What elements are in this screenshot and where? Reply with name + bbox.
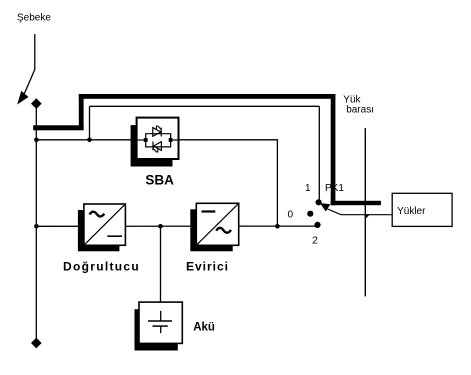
rectifier diagonal xyxy=(85,205,125,245)
switch wiper diagonal to load line xyxy=(327,209,342,215)
wire: main horizontal rail (rectifier-inverter-switch) xyxy=(36,225,317,227)
battery cell: top lead xyxy=(160,311,162,321)
wire: battery lead down xyxy=(160,226,162,302)
junction dot battery tap xyxy=(158,224,163,229)
SBA inner: loop rectangle rails xyxy=(146,134,171,147)
node: mains connection diamond (top) xyxy=(31,98,42,109)
block SBA: shadow xyxy=(131,125,173,166)
svg-text:Yükler: Yükler xyxy=(397,206,426,217)
wire: bypass top horizontal to switch xyxy=(90,105,320,107)
node: bottom connection diamond xyxy=(31,338,42,349)
svg-text:0: 0 xyxy=(288,210,294,221)
SBA inner: top thyristor (points right) xyxy=(153,128,161,137)
block Evirici (inverter): shadow xyxy=(190,209,232,251)
svg-text:Evirici: Evirici xyxy=(186,260,229,274)
junction tick on load bus xyxy=(365,214,370,219)
svg-text:SBA: SBA xyxy=(145,173,174,188)
wire: bypass riser xyxy=(89,106,91,140)
block Yükler: box xyxy=(392,193,452,226)
block Akü: box xyxy=(139,302,182,343)
SBA inner: right lead and dot xyxy=(171,139,178,141)
wire: SBA output to inverter rail xyxy=(179,140,278,227)
contact dot 1 xyxy=(316,199,322,205)
wire: load line to Yükler box xyxy=(341,214,392,216)
svg-text:PK1: PK1 xyxy=(325,183,344,194)
thick power path: left riser xyxy=(79,94,84,129)
block Evirici: box xyxy=(196,203,238,245)
switch blade (mains disconnect, open) xyxy=(24,70,35,96)
junction dot SBA output on rail xyxy=(275,224,280,229)
battery cell: short plate xyxy=(153,325,168,327)
thick power path: bar to loads xyxy=(331,201,381,205)
wire: SBA input line from mains junction xyxy=(36,139,137,141)
thick power path: top horizontal run xyxy=(79,94,336,99)
svg-text:barası: barası xyxy=(346,105,374,116)
thick power path: right drop xyxy=(331,94,336,205)
SBA inner: bottom thyristor (points left) xyxy=(153,142,161,151)
battery cell: bottom lead xyxy=(160,326,162,333)
block Akü (battery): shadow xyxy=(135,309,178,350)
battery cell: long plate xyxy=(148,320,172,322)
contact dot 0 xyxy=(307,211,313,217)
junction dot at bypass riser xyxy=(87,138,92,143)
block SBA: box xyxy=(137,118,179,159)
block Doğrultucu: box xyxy=(84,204,126,245)
rectifier AC tilde xyxy=(90,212,105,217)
thick power path: lower-left bar from mains xyxy=(33,125,83,130)
svg-text:2: 2 xyxy=(312,235,318,247)
junction dot mains-rectifier xyxy=(34,224,39,229)
svg-text:Şebeke: Şebeke xyxy=(17,13,51,24)
svg-text:Doğrultucu: Doğrultucu xyxy=(63,260,140,274)
inverter AC tilde xyxy=(216,228,231,233)
wire: Yük barası vertical bus xyxy=(364,128,366,296)
contact dot 2 xyxy=(314,222,320,228)
SBA inner: left lead and dot xyxy=(137,139,146,141)
block Doğrultucu (rectifier): shadow xyxy=(78,210,120,251)
inverter DC dash xyxy=(202,210,216,212)
junction dot on mains at SBA line xyxy=(34,138,39,143)
svg-text:Akü: Akü xyxy=(193,321,215,333)
wire: main left vertical bus xyxy=(35,104,37,343)
switch wiper arrowhead toward contact 1 xyxy=(320,203,331,212)
switch blade arrowhead xyxy=(17,91,28,105)
wire: bypass drop to contact 1 xyxy=(318,106,320,200)
svg-text:1: 1 xyxy=(305,183,311,194)
rectifier DC dash xyxy=(107,235,122,237)
inverter diagonal xyxy=(197,204,238,245)
wire: mains drop from Şebeke label xyxy=(34,34,36,70)
